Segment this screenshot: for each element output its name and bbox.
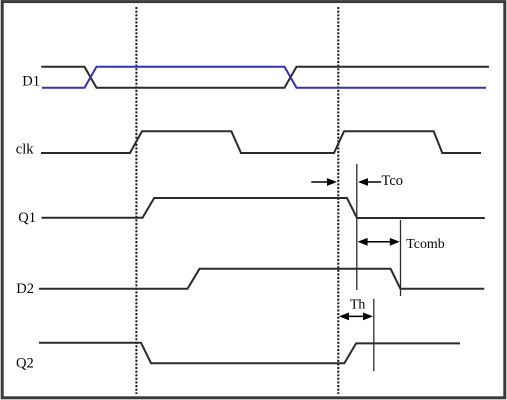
svg-text:Tco: Tco <box>382 173 404 189</box>
label D1 <box>22 73 40 89</box>
signal D1 blue trace <box>42 67 486 88</box>
svg-text:clk: clk <box>16 141 34 157</box>
dotted clock-edge line 1 <box>135 7 137 394</box>
label Tco <box>382 173 404 189</box>
signal Q2 trace <box>39 343 460 364</box>
tick line at D2 change (x=400.5) <box>400 220 402 296</box>
svg-text:D2: D2 <box>16 281 34 297</box>
svg-text:Th: Th <box>350 297 365 312</box>
label D2 <box>16 281 34 297</box>
svg-text:Q2: Q2 <box>16 355 34 371</box>
label clk <box>16 141 34 157</box>
Tcomb double arrow <box>358 238 368 246</box>
tick line for Th (x=373.8) <box>373 299 375 371</box>
Th double arrow <box>339 313 349 321</box>
label Q2 <box>16 355 34 371</box>
Tco left arrow (points right at dotted line) <box>311 181 328 183</box>
signal Q1 trace <box>42 198 485 218</box>
signal D1 black trace <box>41 67 489 88</box>
svg-text:D1: D1 <box>22 73 40 89</box>
dotted clock-edge line 2 <box>337 7 339 394</box>
tick line at Q1 output change (x=357) <box>356 164 358 290</box>
signal clk trace <box>41 131 481 153</box>
svg-text:Tcomb: Tcomb <box>406 237 444 252</box>
label Th <box>350 297 365 312</box>
label Tcomb <box>406 237 444 252</box>
signal D2 trace <box>39 269 484 289</box>
svg-text:Q1: Q1 <box>18 210 36 226</box>
Tco right arrow (points left at tick) <box>358 178 368 186</box>
label Q1 <box>18 210 36 226</box>
